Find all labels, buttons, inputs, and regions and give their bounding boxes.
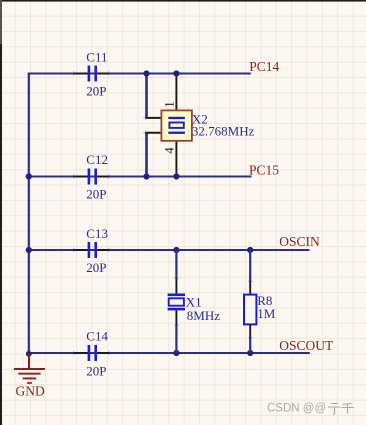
- svg-text:20P: 20P: [86, 260, 106, 275]
- ground GND: [14, 354, 45, 399]
- sheet border top: [0, 0, 366, 2]
- pin 2 X1: [175, 310, 177, 325]
- svg-text:1: 1: [163, 101, 177, 107]
- svg-text:C14: C14: [86, 328, 108, 343]
- svg-text:C11: C11: [86, 49, 107, 64]
- pin 1 R8: [249, 282, 251, 295]
- wire row OSCOUT: [29, 352, 310, 354]
- sheet border left: [0, 0, 2, 425]
- junction row3 R8: [247, 247, 253, 253]
- junction row3 bus: [26, 247, 32, 253]
- junction row2 right: [173, 173, 179, 179]
- svg-text:GND: GND: [16, 384, 45, 399]
- pin 2 R8: [249, 324, 251, 337]
- svg-text:C12: C12: [86, 152, 108, 167]
- svg-text:20P: 20P: [86, 363, 106, 378]
- svg-text:OSCIN: OSCIN: [279, 234, 320, 249]
- crystal X2 body: [161, 110, 192, 140]
- wire row PC14: [28, 73, 251, 75]
- wire X2 upper-left branch: [145, 74, 148, 119]
- pin 4 X2 bottom: [175, 133, 177, 174]
- wire X2 lower-left branch: [145, 132, 148, 177]
- watermark CSDN: [267, 403, 326, 415]
- svg-text:20P: 20P: [86, 187, 106, 202]
- wire left bus: [28, 74, 30, 354]
- svg-text:1M: 1M: [257, 306, 276, 321]
- svg-text:OSCOUT: OSCOUT: [279, 338, 334, 353]
- svg-text:32.768MHz: 32.768MHz: [192, 124, 255, 139]
- sheet border tick: [0, 0, 2, 44]
- svg-text:20P: 20P: [86, 83, 106, 98]
- junction row4 R8: [247, 350, 253, 356]
- svg-text:CSDN @@: CSDN @@: [267, 403, 326, 415]
- wire R8 top: [249, 250, 251, 282]
- capacitor C13: [74, 226, 109, 275]
- svg-text:8MHz: 8MHz: [187, 308, 220, 323]
- wire row OSCIN: [29, 249, 310, 251]
- capacitor C12: [74, 152, 109, 201]
- watermark CJK glyphs: [328, 404, 354, 415]
- pin end markers: [71, 71, 252, 355]
- wire X1 top: [175, 250, 177, 279]
- wire R8 bottom: [249, 338, 251, 354]
- wire X1 bottom: [175, 325, 177, 353]
- resistor R8: [244, 295, 256, 325]
- junction row3 X1: [173, 247, 179, 253]
- junction row4 bus: [26, 351, 32, 357]
- capacitor C11: [74, 49, 109, 98]
- pin 1 X1: [175, 279, 177, 295]
- capacitor C14: [74, 328, 109, 378]
- wire row PC15: [29, 176, 252, 178]
- junction row1 right: [173, 70, 179, 76]
- pin 2 X2 left top: [146, 117, 162, 119]
- junction row4 X1: [173, 350, 179, 356]
- pin 3 X2 left bottom: [146, 132, 162, 134]
- junction row2 bus: [26, 173, 32, 179]
- svg-text:PC15: PC15: [249, 163, 279, 178]
- pin 1 X2 top: [175, 76, 177, 118]
- junction row2 mid: [143, 173, 149, 179]
- crystal X1: [168, 294, 185, 311]
- svg-text:PC14: PC14: [249, 59, 279, 74]
- svg-text:C13: C13: [86, 226, 108, 241]
- junction row1 left: [143, 70, 149, 76]
- svg-text:4: 4: [163, 147, 177, 154]
